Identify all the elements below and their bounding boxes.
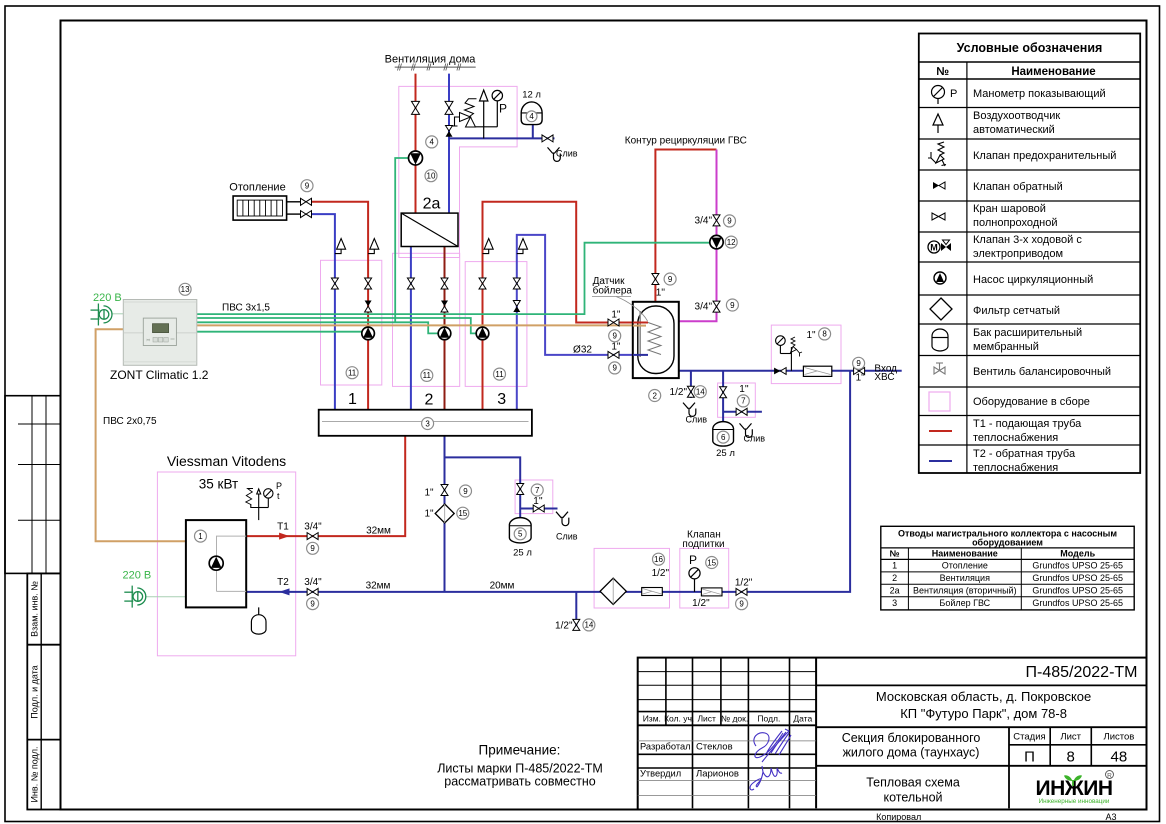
svg-text:Отопление: Отопление [229, 182, 285, 194]
boiler assembly box [157, 472, 295, 656]
svg-text:рассматривать совместно: рассматривать совместно [444, 775, 595, 789]
node 3 [422, 418, 434, 430]
svg-text:Ларионов: Ларионов [696, 769, 739, 780]
svg-text:5: 5 [518, 530, 523, 539]
svg-text:1: 1 [348, 391, 357, 408]
node 9 magenta bottom [726, 299, 738, 311]
svg-text:котельной: котельной [883, 791, 942, 805]
valve red 1inch tank left [608, 319, 619, 326]
valve XBC drain 14 [687, 386, 694, 397]
svg-text:2: 2 [892, 573, 897, 583]
svg-text:12 л: 12 л [522, 90, 541, 101]
node 13 [179, 283, 191, 295]
svg-text:Секция блокированного: Секция блокированного [842, 731, 981, 745]
svg-text:1": 1" [424, 488, 434, 499]
safety group 2a [453, 90, 503, 138]
svg-text:9: 9 [668, 275, 673, 284]
svg-text:теплоснабжения: теплоснабжения [973, 462, 1058, 474]
wire T2 collector return [444, 436, 446, 592]
wire T1 DHW tank supply [483, 202, 649, 410]
svg-text:Вентиляция (вторичный): Вентиляция (вторичный) [913, 586, 1017, 596]
balancing valve symbol [934, 363, 945, 374]
svg-text:3: 3 [425, 419, 430, 428]
assembly box 16 [594, 548, 669, 608]
svg-text:Т1: Т1 [277, 522, 289, 533]
svg-text:Разработал: Разработал [640, 742, 691, 752]
wire branch to tank 25l [445, 457, 521, 517]
svg-text:32мм: 32мм [366, 526, 391, 537]
collector [319, 410, 532, 436]
manometer 15 [689, 568, 700, 592]
left vertical stamp boxes [27, 573, 60, 809]
svg-text:1/2": 1/2" [652, 568, 670, 579]
svg-text:13: 13 [181, 285, 190, 294]
node 10 [425, 170, 437, 182]
svg-text:11: 11 [348, 369, 357, 378]
svg-text:Кол. уч.: Кол. уч. [664, 714, 694, 724]
svg-text:Р: Р [499, 102, 507, 116]
svg-text:Бак расширительный: Бак расширительный [973, 327, 1082, 339]
air vent assembly 3 red [483, 239, 494, 254]
heat exchanger 2a [401, 213, 458, 246]
valve assembly3 red [479, 278, 486, 289]
valve radiator return [301, 211, 312, 218]
svg-text:220 В: 220 В [123, 570, 152, 582]
wire PVS cable to pump 2a [395, 158, 409, 322]
node 9 red 1inch [609, 330, 621, 342]
svg-text:220 В: 220 В [93, 292, 122, 304]
valve drain 12l [542, 135, 553, 142]
expansion tank 25l (5) [509, 518, 531, 543]
svg-text:1'': 1'' [656, 288, 665, 299]
assembly box 7 near tank 5 [515, 480, 553, 514]
svg-text:Отопление: Отопление [942, 561, 988, 571]
node 4 tank [526, 111, 537, 122]
svg-text:П: П [1024, 749, 1035, 766]
wire sensor cable to DHW tank [197, 324, 646, 326]
svg-text:Стеклов: Стеклов [696, 742, 733, 753]
svg-text:автоматический: автоматический [973, 124, 1055, 136]
node 4 2a [426, 136, 438, 148]
boiler top instruments [246, 489, 273, 521]
check valve assembly1 red [365, 301, 372, 313]
valve podpitka [736, 588, 747, 595]
valve assembly2 red [441, 278, 448, 289]
wire T1 boiler supply [246, 436, 405, 536]
wire PVS cable to pump 12 [197, 243, 710, 314]
svg-text:Бойлер ГВС: Бойлер ГВС [939, 598, 990, 608]
node 8 [819, 328, 831, 340]
reducer 16 [642, 588, 663, 596]
assembly box 15 [680, 548, 729, 608]
T2 blue line symbol [929, 460, 952, 462]
wire T2 DHW tank return [517, 235, 648, 410]
boiler Viessman [186, 520, 246, 607]
funnel drain 2a [548, 147, 561, 161]
node 11 a1 [346, 367, 358, 379]
svg-text:Условные обозначения: Условные обозначения [957, 41, 1103, 55]
wire DHW recirculation magenta [679, 150, 717, 322]
wire PVS 2x0.75 to boiler [96, 329, 186, 541]
wire expansion tank 6 branch [722, 371, 724, 421]
arrow T2 [279, 588, 289, 595]
svg-text:Т2: Т2 [277, 577, 289, 588]
svg-text:№: № [890, 549, 900, 559]
svg-text:оборудованием: оборудованием [972, 538, 1043, 548]
220V plug 1 [91, 304, 113, 326]
valve tank5 drain [533, 505, 544, 512]
svg-text:Т1 - подающая труба: Т1 - подающая труба [973, 418, 1082, 430]
svg-text:Лист: Лист [1060, 732, 1081, 743]
svg-text:3/4": 3/4" [695, 216, 713, 227]
lower rows [638, 740, 816, 742]
svg-text:2а: 2а [423, 196, 441, 213]
220V plug 2 [124, 586, 146, 608]
wire tank 6 drain [723, 411, 762, 413]
svg-text:R: R [1107, 773, 1112, 780]
svg-text:Р: Р [276, 481, 282, 491]
3-way valve symbol [928, 240, 951, 253]
assembly box 3 [465, 262, 527, 387]
valve T2 drain 14 [573, 619, 580, 630]
wire PVS cable to pump 3 [197, 318, 476, 333]
valve magenta top [713, 215, 720, 226]
svg-text:1'': 1'' [533, 496, 542, 507]
svg-text:Ø32: Ø32 [573, 345, 592, 356]
air vent assembly 1 red [368, 239, 379, 254]
safety valve symbol [928, 142, 946, 166]
svg-text:Слив: Слив [556, 148, 578, 158]
svg-text:Тепловая схема: Тепловая схема [866, 776, 960, 790]
wire T1 radiator supply [312, 202, 368, 410]
svg-text:9: 9 [310, 544, 315, 553]
check valve assembly2 red [441, 301, 448, 313]
svg-text:М: М [930, 243, 938, 253]
valve blue 1inch tank left [608, 351, 619, 358]
svg-text:Кран шаровой: Кран шаровой [973, 203, 1046, 215]
svg-text:Лист: Лист [697, 714, 716, 724]
left additional stamp box [5, 396, 61, 574]
svg-text:4: 4 [429, 138, 434, 147]
svg-text:П-485/2022-ТМ: П-485/2022-ТМ [1026, 664, 1138, 681]
pink equipment box symbol [929, 392, 950, 411]
node 11 a2 [421, 369, 433, 381]
svg-text:Наименование: Наименование [932, 549, 998, 559]
svg-text:Насос циркуляционный: Насос циркуляционный [973, 274, 1093, 286]
XBC filter rect [803, 366, 831, 376]
expansion tank symbol [932, 329, 948, 351]
svg-text:Контур рециркуляции ГВС: Контур рециркуляции ГВС [625, 136, 747, 147]
svg-text:1'': 1'' [739, 384, 748, 395]
expansion tank 12l [521, 102, 542, 125]
node 9 T2 [307, 598, 319, 610]
svg-text:ПВС 3х1,5: ПВС 3х1,5 [222, 303, 270, 314]
svg-text:ХВС: ХВС [874, 372, 894, 383]
ZONT controller [123, 300, 197, 366]
svg-text:№: № [936, 66, 949, 78]
svg-text:1/2": 1/2" [692, 598, 710, 609]
upper small rows [638, 671, 816, 673]
svg-text:2а: 2а [890, 586, 900, 596]
svg-text:48: 48 [1111, 749, 1128, 766]
svg-text:КП "Футуро Парк", дом 78-8: КП "Футуро Парк", дом 78-8 [900, 706, 1067, 721]
svg-text:35 кВт: 35 кВт [199, 477, 238, 492]
svg-text:6: 6 [721, 433, 726, 442]
wire PVS cable to pump 2 [197, 322, 438, 333]
valve on red to tank top [652, 274, 659, 285]
svg-text:1": 1" [611, 310, 621, 321]
svg-text:7: 7 [535, 486, 540, 495]
svg-text:12: 12 [727, 238, 736, 247]
svg-text:1": 1" [856, 372, 866, 383]
svg-text:10: 10 [427, 172, 436, 181]
svg-text:Р: Р [950, 88, 957, 100]
svg-text:Вентиль балансировочный: Вентиль балансировочный [973, 366, 1111, 378]
svg-text:8: 8 [822, 330, 827, 339]
valve tank6 drain [736, 408, 747, 415]
right part [816, 684, 1146, 686]
svg-text:Наименование: Наименование [1011, 66, 1095, 78]
node 7 box7b [737, 395, 749, 407]
valve 2a blue [445, 101, 453, 114]
wire plug1 to ZONT [111, 313, 123, 315]
svg-text:9: 9 [730, 301, 735, 310]
svg-text:Вентиляция дома: Вентиляция дома [385, 54, 477, 66]
svg-text:Р: Р [689, 553, 697, 567]
wire tank 25l drain line [520, 508, 557, 510]
svg-text:2: 2 [425, 392, 434, 409]
pump 2a [409, 151, 423, 165]
svg-text:Viessman Vitodens: Viessman Vitodens [167, 453, 286, 469]
wire T2 drain stub [575, 592, 577, 631]
svg-text:9: 9 [739, 600, 744, 609]
expansion tank 25l (6) [713, 422, 734, 446]
svg-text:Примечание:: Примечание: [479, 743, 561, 758]
svg-text:1": 1" [424, 509, 434, 520]
assembly box 7 near XBC [718, 383, 756, 417]
assembly box 2a [399, 86, 517, 257]
svg-text:мембранный: мембранный [973, 341, 1039, 353]
svg-text:Клапан предохранительный: Клапан предохранительный [973, 150, 1116, 162]
svg-text:25 л: 25 л [716, 448, 735, 459]
node 9 magenta top [724, 215, 736, 227]
svg-text:4: 4 [529, 112, 534, 121]
svg-text:Инженерные инновации: Инженерные инновации [1039, 798, 1110, 805]
svg-text:Утвердил: Утвердил [640, 769, 681, 779]
svg-text:Слив: Слив [686, 414, 708, 424]
svg-text:Grundfos UPSO 25-65: Grundfos UPSO 25-65 [1032, 586, 1123, 596]
node 14 XBC [694, 386, 706, 398]
wire T2 radiator return [312, 214, 335, 410]
svg-text:3/4": 3/4" [695, 302, 713, 313]
svg-text:7: 7 [741, 397, 746, 406]
wire cold water XBC [679, 370, 902, 372]
svg-text:14: 14 [584, 621, 593, 630]
svg-text:Манометр показывающий: Манометр показывающий [973, 88, 1106, 100]
node 7 box7a [531, 484, 543, 496]
svg-text:Слив: Слив [556, 531, 578, 541]
node 9 recirc valve [664, 273, 676, 285]
svg-text:электроприводом: электроприводом [973, 248, 1063, 260]
valve assembly3 blue [513, 278, 520, 289]
node 9 T1 [307, 542, 319, 554]
assembly box 8 XBC [771, 325, 841, 384]
wire DHW recirculation red [655, 150, 716, 302]
svg-text:подпитки: подпитки [682, 539, 724, 550]
svg-text:1/2": 1/2" [555, 620, 573, 631]
svg-text:1/2": 1/2" [670, 387, 688, 398]
funnel drain tank6 [740, 423, 753, 437]
svg-text:Листы марки П-485/2022-ТМ: Листы марки П-485/2022-ТМ [437, 762, 603, 776]
node 16 [653, 553, 665, 565]
svg-text:теплоснабжения: теплоснабжения [973, 432, 1058, 444]
svg-text:15: 15 [458, 509, 467, 518]
sensor leader line [592, 297, 648, 322]
svg-text:3/4": 3/4" [304, 522, 322, 533]
svg-text:20мм: 20мм [490, 581, 515, 592]
svg-text:1: 1 [892, 561, 897, 571]
svg-text:Воздухоотводчик: Воздухоотводчик [973, 110, 1060, 122]
svg-text:Grundfos UPSO 25-65: Grundfos UPSO 25-65 [1032, 573, 1123, 583]
filter strainer 16 [600, 578, 626, 604]
svg-text:2: 2 [652, 391, 657, 400]
wire T2 main return [246, 371, 850, 592]
radiator [233, 196, 300, 220]
svg-text:№ док.: № док. [721, 714, 748, 724]
svg-text:9: 9 [727, 217, 732, 226]
svg-text:Московская область, д. Покровс: Московская область, д. Покровское [876, 689, 1091, 704]
funnel drain tank5 [556, 512, 569, 526]
svg-text:Модель: Модель [1060, 549, 1095, 559]
svg-text:25 л: 25 л [513, 548, 532, 559]
assembly box 2 [393, 253, 460, 386]
svg-text:9: 9 [856, 359, 861, 368]
wire T2 ventilation return [448, 74, 450, 214]
svg-text:Изм.: Изм. [643, 714, 661, 724]
valve radiator supply [301, 198, 312, 205]
svg-text:9: 9 [612, 364, 617, 373]
valve tank5 branch [517, 484, 524, 495]
left columns [665, 658, 667, 726]
filter symbol [930, 298, 952, 320]
node 14 T2 [583, 619, 595, 631]
ball valve symbol [932, 213, 945, 220]
svg-text:1": 1" [806, 330, 816, 341]
svg-text:А3: А3 [1105, 812, 1116, 822]
svg-text:32мм: 32мм [366, 581, 391, 592]
check valve XBC horizontal [774, 368, 786, 375]
wire T2 ventilation secondary supply [410, 247, 412, 410]
svg-text:Grundfos UPSO 25-65: Grundfos UPSO 25-65 [1032, 561, 1123, 571]
assembly box 1 [321, 260, 382, 385]
svg-text:8: 8 [1067, 749, 1075, 766]
svg-text:14: 14 [696, 388, 705, 397]
svg-text:Взам. инв. №: Взам. инв. № [30, 581, 40, 637]
node 15 box15 [706, 557, 718, 569]
wire stubs entering tank [633, 322, 648, 324]
svg-text:ПВС 2х0,75: ПВС 2х0,75 [103, 416, 157, 427]
svg-text:Вентиляция: Вентиляция [940, 573, 990, 583]
svg-text:Листов: Листов [1103, 732, 1134, 743]
wire plug2 to boiler [145, 596, 186, 598]
boiler expansion tank [251, 607, 266, 634]
svg-text:Подл.: Подл. [757, 714, 780, 724]
svg-text:Инв. № подл.: Инв. № подл. [30, 746, 40, 802]
svg-text:1: 1 [198, 532, 203, 541]
feed valve 15 [701, 588, 722, 596]
pump assembly 3 [476, 327, 489, 340]
svg-text:бойлера: бойлера [593, 285, 633, 297]
wire drain stub 14 [690, 371, 692, 398]
T1 red line symbol [929, 430, 952, 432]
node 9 blue 1inch [609, 362, 621, 374]
air vent assembly 3 blue [517, 239, 528, 254]
DHW tank boiler 2 [633, 302, 679, 378]
node 12 [725, 236, 737, 248]
svg-text:полнопроходной: полнопроходной [973, 217, 1058, 229]
node 9 podpitka [736, 598, 748, 610]
svg-text:1/2": 1/2" [735, 577, 753, 588]
svg-text:Клапан 3-х ходовой с: Клапан 3-х ходовой с [973, 234, 1082, 246]
valve T2 boiler [307, 588, 318, 595]
svg-text:Слив: Слив [744, 433, 766, 443]
valve assembly2 blue [407, 278, 414, 289]
wire PVS cable to pump 1 [197, 331, 362, 333]
valve 2a red [412, 101, 420, 114]
air vent symbol [933, 114, 943, 133]
valve tank6 branch [720, 387, 727, 398]
svg-text:Оборудование в сборе: Оборудование в сборе [973, 396, 1090, 408]
svg-text:11: 11 [495, 370, 504, 379]
svg-text:Фильтр сетчатый: Фильтр сетчатый [973, 305, 1060, 317]
pump 12 recirculation [710, 235, 723, 248]
svg-text:3/4": 3/4" [304, 577, 322, 588]
wire T1 ventilation supply [415, 74, 417, 214]
svg-text:16: 16 [654, 555, 663, 564]
wire safety group line [449, 137, 555, 139]
node 9 collector drop [460, 485, 472, 497]
arrow T1 [279, 533, 289, 540]
svg-text:жилого дома (таунхаус): жилого дома (таунхаус) [843, 746, 980, 760]
INZHIN logo [1036, 771, 1114, 806]
node 2 [649, 390, 661, 402]
ventilation break line [395, 64, 476, 71]
check valve symbol [933, 182, 945, 189]
pump symbol [934, 272, 946, 284]
svg-text:15: 15 [707, 558, 716, 567]
svg-text:Клапан обратный: Клапан обратный [973, 181, 1063, 193]
check valve assembly3 blue [513, 301, 520, 313]
manometer symbol [932, 86, 945, 105]
svg-text:9: 9 [612, 332, 617, 341]
node 9 radiator [301, 180, 313, 192]
signatures [750, 729, 791, 790]
node 6 [717, 431, 729, 443]
svg-text:Т2 - обратная труба: Т2 - обратная труба [973, 448, 1076, 460]
node 15 filter [457, 507, 469, 519]
valve T1 boiler [307, 533, 318, 540]
svg-text:ZONT Climatic 1.2: ZONT Climatic 1.2 [110, 368, 209, 382]
pump boiler [209, 556, 223, 570]
svg-text:9: 9 [310, 599, 315, 608]
pump assembly 1 [362, 327, 375, 340]
svg-text:1": 1" [611, 342, 621, 353]
node 5 [514, 528, 526, 540]
wire expansion tank 12l stem [532, 125, 534, 139]
svg-text:9: 9 [463, 487, 468, 496]
svg-text:Grundfos UPSO 25-65: Grundfos UPSO 25-65 [1032, 598, 1123, 608]
XBC instruments in box 8 [776, 336, 802, 371]
